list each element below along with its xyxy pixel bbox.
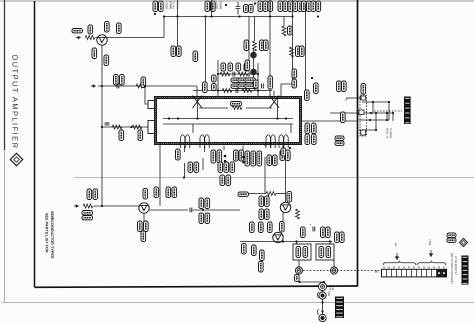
junction — [370, 112, 372, 114]
resistor R374 — [222, 89, 232, 93]
hybrid transmission line lower — [163, 123, 293, 125]
resistor/capacitor label C367 — [307, 1, 312, 12]
wire Q450 emitter to Q445 — [282, 212, 284, 232]
label U370 — [305, 90, 310, 101]
coax connector P84 — [319, 292, 326, 299]
label R361 — [231, 78, 242, 82]
resistor/capacitor label R356 — [205, 1, 210, 12]
label R341 — [104, 55, 109, 66]
wire hybrid pin down x224 — [223, 146, 225, 151]
feed-through FT2 — [330, 267, 337, 274]
label C449v — [259, 262, 264, 273]
junction — [372, 101, 374, 103]
resistor R371b — [238, 72, 248, 76]
bracket J84 lower — [318, 309, 319, 315]
+50V supply bus — [164, 16, 293, 18]
resistor/capacitor label R367 — [302, 1, 307, 12]
junction — [369, 119, 371, 121]
wire C388 to output stage — [193, 209, 241, 211]
label C372 — [244, 63, 249, 71]
junction on fold line — [321, 301, 323, 303]
label R410 — [218, 162, 223, 173]
wire pickoff to Q372 base — [98, 85, 197, 87]
resistor/capacitor label R364 — [278, 1, 283, 12]
junction — [130, 126, 132, 128]
label R434 — [280, 150, 285, 161]
label R387 — [172, 187, 177, 198]
label C436 — [251, 151, 256, 166]
label value 900 — [264, 40, 269, 51]
bus junction — [163, 15, 165, 17]
label C452 — [265, 196, 270, 207]
capacitor C360 — [262, 84, 264, 89]
label R375a — [292, 69, 297, 78]
wire into hump gap left — [192, 124, 194, 133]
capacitor C388 — [190, 208, 192, 213]
wire P510 pin 3 — [359, 119, 389, 121]
label R358b — [288, 26, 293, 35]
label R455 — [265, 209, 270, 220]
connector strip J36 — [382, 266, 447, 277]
svg-text:(WITH OSCILLOSCOPE): (WITH OSCILLOSCOPE) — [450, 253, 453, 284]
label C458 — [340, 232, 345, 243]
label R449v — [260, 250, 265, 261]
svg-text:YIOB: YIOB — [428, 239, 431, 245]
wire bus drop x205 — [211, 0, 213, 17]
note SEE PARTS LIST FOR SEMICONDUCTOR TYPES — [45, 211, 54, 259]
junction — [282, 240, 284, 242]
wire bus drop x270 — [269, 0, 271, 97]
section diamond symbol — [10, 153, 22, 165]
label C375 — [253, 80, 258, 89]
label R433 — [239, 150, 244, 161]
wire Q372 emitter into line — [197, 98, 199, 118]
label C371 — [228, 63, 233, 71]
label C341 — [117, 23, 122, 34]
junction — [386, 119, 388, 121]
label R457 — [326, 227, 331, 238]
resistor/capacitor label R363 — [268, 1, 273, 12]
electrolytic C457 — [313, 227, 315, 232]
label R358 — [249, 5, 254, 13]
label R451 — [238, 192, 249, 196]
junction — [388, 101, 390, 103]
label R346 — [120, 75, 125, 86]
wire bus drop x305 — [305, 4, 307, 97]
label Q445 — [280, 222, 285, 233]
junction — [254, 2, 256, 4]
wire Q385 emitter down — [143, 214, 145, 231]
wire base row above hybrid — [193, 90, 272, 92]
hybrid transmission line upper — [163, 118, 293, 120]
capacitor C349 — [105, 123, 110, 125]
bus junction — [238, 15, 240, 17]
page frame top edge — [0, 0, 474, 2]
resistor/capacitor label C352 — [159, 1, 164, 12]
label R339 — [88, 25, 93, 34]
label C346 — [114, 75, 119, 86]
wire x184 to fold junction — [184, 163, 186, 178]
label R411 — [230, 162, 235, 173]
interconnect label box — [462, 256, 469, 285]
transistor Q450 — [280, 202, 290, 212]
resistor R368 — [290, 47, 294, 57]
label R379 — [305, 134, 310, 145]
label R436 — [245, 151, 250, 166]
label R516 — [335, 136, 344, 140]
label R447 — [268, 222, 273, 233]
brace right group — [417, 261, 446, 265]
junction — [386, 112, 388, 114]
label C409 — [194, 162, 199, 173]
chassis feed-through FT3 — [319, 283, 327, 291]
label CR362 — [245, 60, 250, 71]
wire to hybrid pad 1 — [145, 86, 148, 104]
wire Q374 base stub — [273, 91, 275, 97]
label C387 — [166, 187, 171, 198]
wire module A to feed-through — [298, 260, 300, 267]
label C383 — [138, 221, 143, 232]
label C448 — [252, 245, 257, 256]
input arrow from vertical amplifier — [76, 37, 81, 39]
label CR361 — [244, 40, 249, 51]
label R384 — [82, 216, 93, 220]
label C446 — [259, 222, 264, 233]
label R456 — [301, 227, 306, 238]
wire feedback cage left — [217, 60, 219, 96]
wire into hump gap right — [290, 124, 292, 133]
label Q385 — [143, 189, 148, 200]
label C361 — [238, 78, 249, 82]
resistor/capacitor label R369 — [311, 1, 316, 12]
wire diode chain — [253, 49, 255, 78]
hybrid input pad — [148, 101, 156, 109]
label R458 — [335, 232, 340, 243]
transistor Q385 — [139, 203, 149, 213]
junction — [196, 117, 198, 119]
resistor R350 — [132, 125, 142, 129]
connector middle pin — [359, 110, 364, 115]
label R438 — [267, 155, 272, 166]
label Q450 — [287, 192, 292, 203]
brace left group — [383, 261, 416, 265]
junction — [224, 160, 227, 163]
wire R339 to Q340 node — [96, 37, 165, 39]
label R518 — [341, 112, 346, 123]
hybrid output amplifier U370 outline — [156, 98, 301, 144]
wire Q340 emitter down — [101, 45, 103, 206]
wire — [392, 113, 394, 121]
junction — [217, 73, 219, 75]
main board diamond — [459, 238, 467, 246]
junction — [257, 73, 259, 75]
label R386 — [87, 189, 92, 200]
label R376 — [314, 83, 319, 94]
junction — [329, 240, 331, 242]
svg-text:IN MAG): IN MAG) — [389, 128, 392, 138]
transistor Q445 — [273, 232, 283, 242]
wire Q450 collector up — [285, 194, 287, 203]
wire hybrid to delay line — [301, 120, 358, 122]
resistor/capacitor label R366 — [298, 1, 303, 12]
label R406 — [205, 213, 210, 224]
resistor/capacitor label C362 — [263, 1, 268, 12]
label R452 — [259, 196, 264, 207]
svg-text:P84: P84 — [327, 291, 331, 296]
junction — [375, 129, 377, 131]
label C454 — [319, 247, 324, 258]
label R405 — [205, 198, 210, 209]
feed-through FT1 — [295, 267, 302, 274]
svg-text:36: 36 — [375, 270, 379, 274]
readout board label box — [404, 97, 411, 125]
capacitor C347 — [117, 84, 119, 89]
label R437 — [257, 151, 262, 166]
dashed wire to readout board — [374, 110, 402, 112]
wire feedback cage right — [257, 63, 259, 96]
capacitor C358 to bus — [236, 2, 241, 15]
resistor R371a — [220, 72, 230, 76]
junction — [242, 161, 245, 164]
transistor Q374 on hybrid edge — [270, 96, 280, 109]
signal out label box — [335, 297, 344, 319]
label Q372 — [203, 82, 208, 93]
coax connector J84 — [319, 314, 326, 321]
wire x285 down to Q450 node — [285, 150, 287, 194]
input arrow trigger pickoff — [91, 85, 96, 87]
junction — [154, 13, 156, 15]
wire bus drop x177 — [177, 0, 179, 46]
wire P510 pin 2 — [330, 112, 393, 114]
label R371 — [221, 63, 226, 71]
label C378 — [312, 123, 317, 134]
wire Q385 collector right — [150, 209, 189, 211]
label R348 — [171, 46, 176, 57]
capacitor C371 — [233, 72, 235, 77]
junction — [168, 117, 170, 119]
diode CR362 — [250, 69, 257, 76]
label C442 — [281, 148, 286, 156]
label C366 — [254, 80, 259, 88]
junction at fold — [183, 176, 185, 178]
junction — [375, 112, 377, 114]
label R412 — [226, 175, 231, 186]
label R446 — [250, 222, 255, 233]
junction — [144, 85, 146, 87]
transistor Q372 on hybrid edge — [193, 96, 203, 109]
schematic border left — [34, 1, 36, 287]
junction — [202, 209, 204, 211]
resistor R373 inner — [232, 106, 242, 110]
resistor/capacitor label R362 — [258, 1, 263, 12]
label L383 — [141, 231, 146, 242]
svg-text:aw: aw — [394, 243, 397, 246]
resistor/capacitor label C356 — [211, 1, 216, 12]
junction — [285, 117, 287, 119]
wire hybrid pin down x265 — [264, 144, 266, 147]
label R347 value — [141, 77, 146, 88]
label C411 — [220, 175, 225, 186]
input arrow aux — [74, 205, 79, 207]
wire chassis drop — [322, 291, 324, 316]
wire x203 cluster down — [202, 158, 204, 170]
wire hybrid pin down x243 — [242, 146, 244, 151]
label R378 — [305, 123, 310, 134]
junction — [321, 310, 323, 312]
label C348 — [177, 46, 182, 57]
junction node B — [101, 85, 103, 87]
resistor R349 — [112, 125, 122, 129]
wire Q445 emitter rail — [240, 241, 332, 243]
hybrid input pad 2 — [148, 121, 156, 134]
svg-text:(PULL IN: (PULL IN — [386, 128, 389, 139]
wire Q372 base stub — [196, 91, 198, 97]
bracket P84 upper — [318, 292, 319, 298]
wire — [375, 113, 377, 130]
label R439 — [211, 150, 216, 163]
svg-text:SEE PARTS LIST FOR: SEE PARTS LIST FOR — [45, 213, 49, 253]
wire rail into module A — [296, 242, 298, 245]
wire bus to Q340 collector — [163, 17, 165, 38]
label R372 — [236, 63, 241, 71]
arrow into left group — [396, 253, 399, 260]
label C433 — [234, 150, 239, 161]
junction — [295, 240, 297, 242]
label Q340 — [105, 22, 110, 33]
resistor R339 — [85, 36, 95, 40]
label R359 — [245, 78, 256, 82]
junction — [257, 89, 259, 91]
diode CR361 — [250, 52, 257, 59]
label C363 — [231, 84, 242, 88]
wire rail into module B — [329, 242, 331, 245]
wire bus drop x249 to bias network — [248, 17, 250, 78]
label R454 — [326, 247, 331, 258]
label C453 — [259, 209, 264, 220]
resistor/capacitor label C365 — [293, 1, 298, 12]
label C377 — [245, 84, 256, 88]
label C434 — [286, 150, 291, 161]
wire — [386, 113, 388, 120]
wire — [249, 193, 266, 195]
wire feedback row upper — [218, 73, 258, 75]
transistor Q340 — [97, 35, 107, 45]
label C373 — [212, 84, 217, 91]
label C350 — [193, 51, 198, 62]
bus junction — [204, 15, 206, 17]
wire module B to feed-through — [333, 260, 335, 267]
label R349 value — [119, 130, 124, 141]
resistor/capacitor label R365 — [288, 1, 293, 12]
network module A454 outline — [316, 244, 334, 260]
connector P510 outline — [360, 95, 366, 136]
dashed run to connector J36 — [303, 270, 381, 272]
resistor R453 — [296, 209, 300, 219]
resistor R347 — [136, 84, 146, 88]
label FROM — [72, 29, 83, 33]
svg-text:SEMICONDUCTOR TYPES: SEMICONDUCTOR TYPES — [50, 211, 54, 259]
resistor R374b — [242, 89, 252, 93]
page fold line bottom — [2, 302, 474, 304]
network module A449 outline — [293, 244, 311, 260]
label value 51K — [93, 189, 98, 200]
bus junction — [210, 15, 212, 17]
svg-text:AT 1B MOSTLY: AT 1B MOSTLY — [454, 256, 457, 275]
label R510 — [337, 81, 342, 92]
wire node C to hybrid pin 2 — [102, 126, 148, 128]
wire R386 to Q385 base — [94, 205, 139, 207]
label R360 — [260, 40, 265, 51]
junction — [323, 281, 325, 283]
label R375b — [292, 79, 297, 88]
hybrid inner line left — [199, 107, 228, 109]
label C405 — [199, 198, 204, 209]
wire — [388, 102, 390, 120]
svg-text:OUTPUT AMPLIFIER: OUTPUT AMPLIFIER — [11, 55, 20, 150]
hybrid inner line right — [246, 107, 272, 109]
hybrid output transistor Q378 — [266, 135, 275, 148]
wire to Q450 — [276, 193, 286, 195]
wire into Q372 base — [196, 86, 198, 91]
label R350 value — [138, 130, 143, 141]
label R460 — [295, 275, 300, 282]
svg-text:5%W: 5%W — [219, 2, 223, 10]
junction with Q340 emitter line — [101, 205, 103, 207]
label R383 — [144, 221, 149, 232]
junction — [392, 112, 394, 114]
label C437 — [273, 155, 278, 166]
bus junction — [176, 15, 178, 17]
label value — [300, 46, 305, 57]
wire P510 pin 1a — [346, 97, 362, 99]
label C438 — [176, 149, 181, 160]
svg-text:+50V: +50V — [165, 2, 169, 10]
svg-text:C344: C344 — [172, 2, 176, 9]
junction — [289, 147, 291, 149]
junction — [276, 117, 278, 119]
label C510 — [342, 81, 347, 92]
junction — [224, 155, 227, 158]
label C358 — [244, 5, 249, 13]
resistor/capacitor label C364 — [283, 1, 288, 12]
label R459 — [303, 247, 308, 258]
resistor/capacitor label R352 — [153, 1, 158, 12]
junction — [217, 89, 219, 91]
label C406 — [199, 213, 204, 224]
junction — [317, 15, 319, 17]
schematic border right — [357, 0, 359, 286]
resistor R450 — [266, 192, 276, 196]
resistor/capacitor label C369 — [316, 1, 321, 12]
label C457 — [321, 227, 326, 238]
label P510 — [361, 84, 366, 95]
resistor R386 — [83, 204, 93, 208]
resistor R360 — [253, 41, 257, 51]
resistor R358b — [282, 26, 286, 36]
label R409 — [188, 162, 193, 173]
wire x265 cluster to resistor row — [264, 157, 266, 194]
junction — [311, 77, 313, 79]
junction — [177, 117, 179, 119]
svg-text:R344: R344 — [176, 2, 180, 9]
junction node C — [101, 126, 103, 128]
wire P510 pin 1 — [362, 101, 389, 103]
svg-text:+50V: +50V — [215, 2, 219, 10]
wire hybrid pin down x184 — [184, 146, 186, 153]
junction — [225, 4, 227, 6]
label C386 — [82, 211, 93, 215]
label C516 — [335, 141, 344, 145]
